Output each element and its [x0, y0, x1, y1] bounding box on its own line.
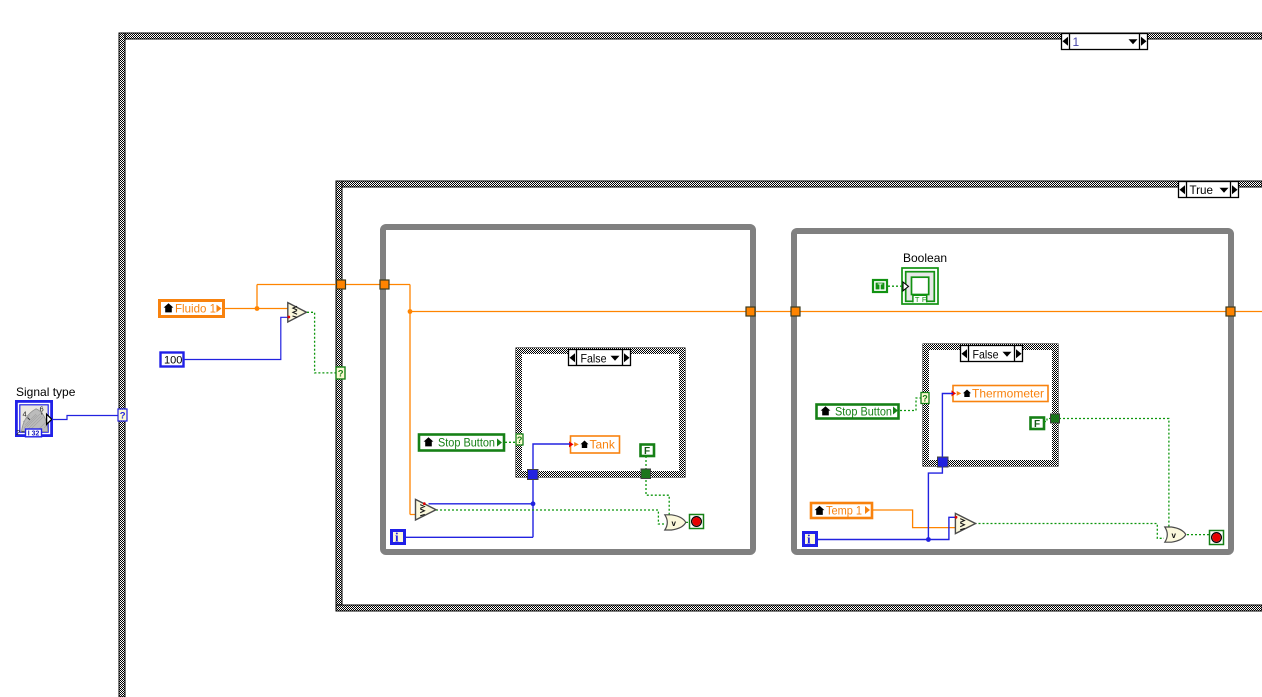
green dotted F1 down to V1 [436, 456, 690, 524]
green tunnel case2 right [1051, 414, 1060, 423]
iteration terminal i (loop2) [804, 532, 817, 547]
Or gate V1 [665, 515, 686, 530]
knob control icon (Signal type, I32) [15, 400, 53, 438]
True case structure bottom band [336, 605, 1262, 611]
svg-text:Signal type: Signal type [16, 385, 76, 399]
case 1 selector False [569, 350, 631, 366]
terminal Temp 1 [811, 503, 872, 518]
svg-text:i: i [807, 532, 811, 547]
svg-text:Thermometer: Thermometer [972, 387, 1044, 401]
svg-text:Fluido 1: Fluido 1 [175, 302, 216, 316]
case1 ? tunnel [516, 434, 523, 445]
svg-text:F: F [644, 446, 650, 457]
boolean indicator icon [902, 268, 938, 304]
svg-text:F: F [922, 295, 927, 304]
svg-text:100: 100 [164, 355, 182, 367]
green dotted wire comparator A to case selector tunnel [307, 312, 336, 373]
blue wire i1 up through tunnel to Tank [406, 444, 570, 537]
True case selector [1179, 182, 1239, 198]
outer case selector "1" [1062, 34, 1148, 50]
svg-text:?: ? [922, 394, 928, 404]
svg-text:Stop Button: Stop Button [438, 436, 495, 450]
while loop 2 border [794, 231, 1231, 552]
false constant F (loop2) [1031, 418, 1045, 431]
green dotted F2 to tunnel to V2 [975, 419, 1210, 539]
blue tunnel case1 bottom [528, 470, 539, 480]
case 2 selector False [961, 346, 1023, 362]
case structure 2 (False) borders [923, 344, 1058, 466]
blue tunnel case2 bottom [938, 457, 949, 467]
orange tunnel on True case left border [337, 280, 346, 289]
orange wire fluido to comparator A and tunnels [224, 285, 1262, 515]
loop2 stop terminal [1210, 531, 1224, 545]
loop1 stop terminal [690, 515, 704, 529]
blue wire 100 to comparator A [184, 317, 288, 359]
svg-text:False: False [581, 351, 607, 365]
comparator 2 (Greater Or Equal?) [955, 513, 976, 533]
green dotted SB2 to case2 ? tunnel [900, 398, 921, 411]
wire signal type to tunnel (blue) [52, 416, 118, 420]
indicator Tank [569, 436, 620, 453]
svg-text:False: False [973, 347, 999, 361]
terminal Fluido 1 [160, 301, 224, 317]
comparator 1 (Greater Or Equal?) [416, 499, 437, 520]
comparator A (Less Or Equal?) [287, 303, 306, 322]
svg-text:Tank: Tank [590, 438, 616, 452]
svg-text:6: 6 [40, 405, 44, 414]
outer case structure border (top band) [119, 33, 1262, 39]
case2 ? tunnel [921, 393, 929, 404]
green dotted T to boolean [888, 285, 902, 287]
svg-text:I 32: I 32 [28, 431, 40, 438]
green dotted SB1 to case1 ? tunnel [505, 441, 516, 443]
svg-text:1: 1 [1073, 35, 1080, 49]
case selector tunnel ? (green) [336, 367, 345, 380]
orange tunnel on loop2 left border [791, 307, 800, 316]
True case structure left band [336, 181, 342, 611]
svg-text:4: 4 [23, 410, 27, 419]
svg-text:?: ? [338, 369, 344, 380]
svg-text:T: T [915, 295, 920, 304]
tunnel ? on outer border (signal type input) [118, 409, 127, 422]
green tunnel case1 bottom [641, 469, 651, 479]
terminal Stop Button (loop2) [817, 405, 899, 419]
orange tunnel on loop2 right border [1226, 307, 1235, 316]
svg-text:?: ? [120, 411, 126, 422]
svg-text:F: F [1034, 419, 1040, 430]
numeric constant 100 [161, 353, 184, 367]
svg-text:Boolean: Boolean [903, 251, 947, 265]
orange wire Temp1 to comparator2 [872, 510, 956, 528]
outer case structure border (left band) [119, 33, 125, 697]
case structure 1 (False) borders [516, 348, 685, 477]
false constant F (loop1) [641, 445, 655, 458]
svg-text:?: ? [517, 435, 523, 445]
svg-text:True: True [1190, 183, 1214, 197]
orange tunnel on loop1 left border [380, 280, 389, 289]
while loop 1 border [383, 227, 753, 552]
input triangle of boolean indicator [903, 282, 909, 291]
svg-text:Temp 1: Temp 1 [826, 504, 862, 518]
svg-text:v: v [1172, 531, 1177, 540]
svg-text:2: 2 [16, 428, 20, 437]
blue wires loop2 [818, 394, 955, 542]
svg-text:v: v [672, 519, 677, 528]
svg-text:T: T [878, 283, 883, 292]
terminal Stop Button (loop1) [419, 435, 504, 451]
orange tunnel on loop1 right border [746, 307, 755, 316]
true constant T [873, 280, 887, 292]
svg-text:i: i [395, 530, 399, 545]
indicator Thermometer [952, 386, 1049, 402]
Or gate V2 [1165, 527, 1186, 542]
svg-text:Stop Button: Stop Button [835, 405, 892, 419]
iteration terminal i (loop1) [392, 530, 405, 545]
True case structure top band [336, 181, 1262, 187]
